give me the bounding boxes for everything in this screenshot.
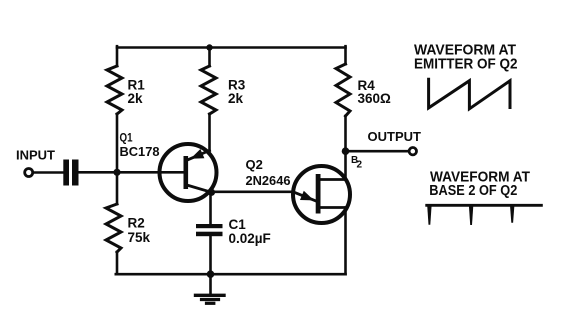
node base junction — [113, 169, 120, 176]
wire coupling capacitor to Q1 base — [79, 171, 184, 174]
svg-text:BASE 2 OF Q2: BASE 2 OF Q2 — [429, 183, 517, 199]
waveform pulses at base 2 of Q2 — [427, 204, 542, 225]
svg-text:OUTPUT: OUTPUT — [368, 129, 422, 144]
resistor R1 — [107, 66, 122, 114]
svg-text:Q1: Q1 — [120, 131, 133, 145]
node ground junction — [207, 270, 215, 278]
terminal output — [409, 148, 416, 155]
wire middle column (R3 to Q1 emitter) — [208, 114, 211, 151]
wire Q1 collector to Q2 emitter — [212, 191, 294, 194]
transistor Q2 — [246, 157, 351, 223]
svg-text:2N2646: 2N2646 — [246, 173, 291, 188]
wire left column bottom (R2 to bottom rail) — [116, 252, 119, 274]
svg-text:75k: 75k — [128, 230, 151, 245]
coupling capacitor — [63, 160, 69, 186]
svg-text:C1: C1 — [229, 217, 247, 232]
wire R4 to output node — [344, 116, 347, 151]
node B2 output junction — [342, 147, 350, 155]
transistor Q1 — [120, 131, 217, 202]
wire right column top (rail to R4) — [344, 46, 347, 64]
wire input terminal to coupling capacitor — [33, 171, 63, 174]
wire middle column (rail to R3) — [208, 48, 211, 67]
svg-text:EMITTER OF Q2: EMITTER OF Q2 — [414, 56, 518, 73]
node top rail junction — [206, 44, 212, 50]
wire bottom ground rail — [116, 273, 346, 276]
svg-text:360Ω: 360Ω — [358, 91, 392, 106]
ground — [196, 274, 225, 303]
wire Q2 base2 up to output node — [344, 151, 347, 179]
terminal input — [25, 169, 33, 177]
wire Q2 base1 down to ground rail — [344, 208, 347, 275]
wire left column (R1 to base node) — [116, 114, 119, 172]
node Q1 collector junction — [208, 189, 215, 196]
svg-text:2k: 2k — [128, 91, 144, 106]
capacitor C1 — [196, 224, 223, 228]
wire C1 to ground rail — [209, 236, 212, 274]
svg-text:R2: R2 — [128, 216, 145, 231]
svg-text:Q2: Q2 — [246, 157, 263, 172]
svg-text:INPUT: INPUT — [16, 148, 55, 163]
wire top supply rail — [117, 46, 346, 49]
wire left column top (rail to R1) — [116, 46, 119, 66]
svg-text:BC178: BC178 — [120, 144, 160, 159]
resistor R4 — [336, 64, 350, 116]
wire output — [346, 150, 410, 153]
svg-text:0.02µF: 0.02µF — [229, 231, 271, 246]
waveform sawtooth at emitter of Q2 — [429, 79, 510, 109]
resistor R3 — [201, 66, 216, 114]
resistor R2 — [106, 204, 121, 252]
wire Q1 collector to C1 — [209, 192, 212, 224]
svg-text:2: 2 — [357, 160, 363, 171]
svg-text:2k: 2k — [228, 91, 244, 106]
wire left column (base node to R2) — [116, 172, 119, 204]
